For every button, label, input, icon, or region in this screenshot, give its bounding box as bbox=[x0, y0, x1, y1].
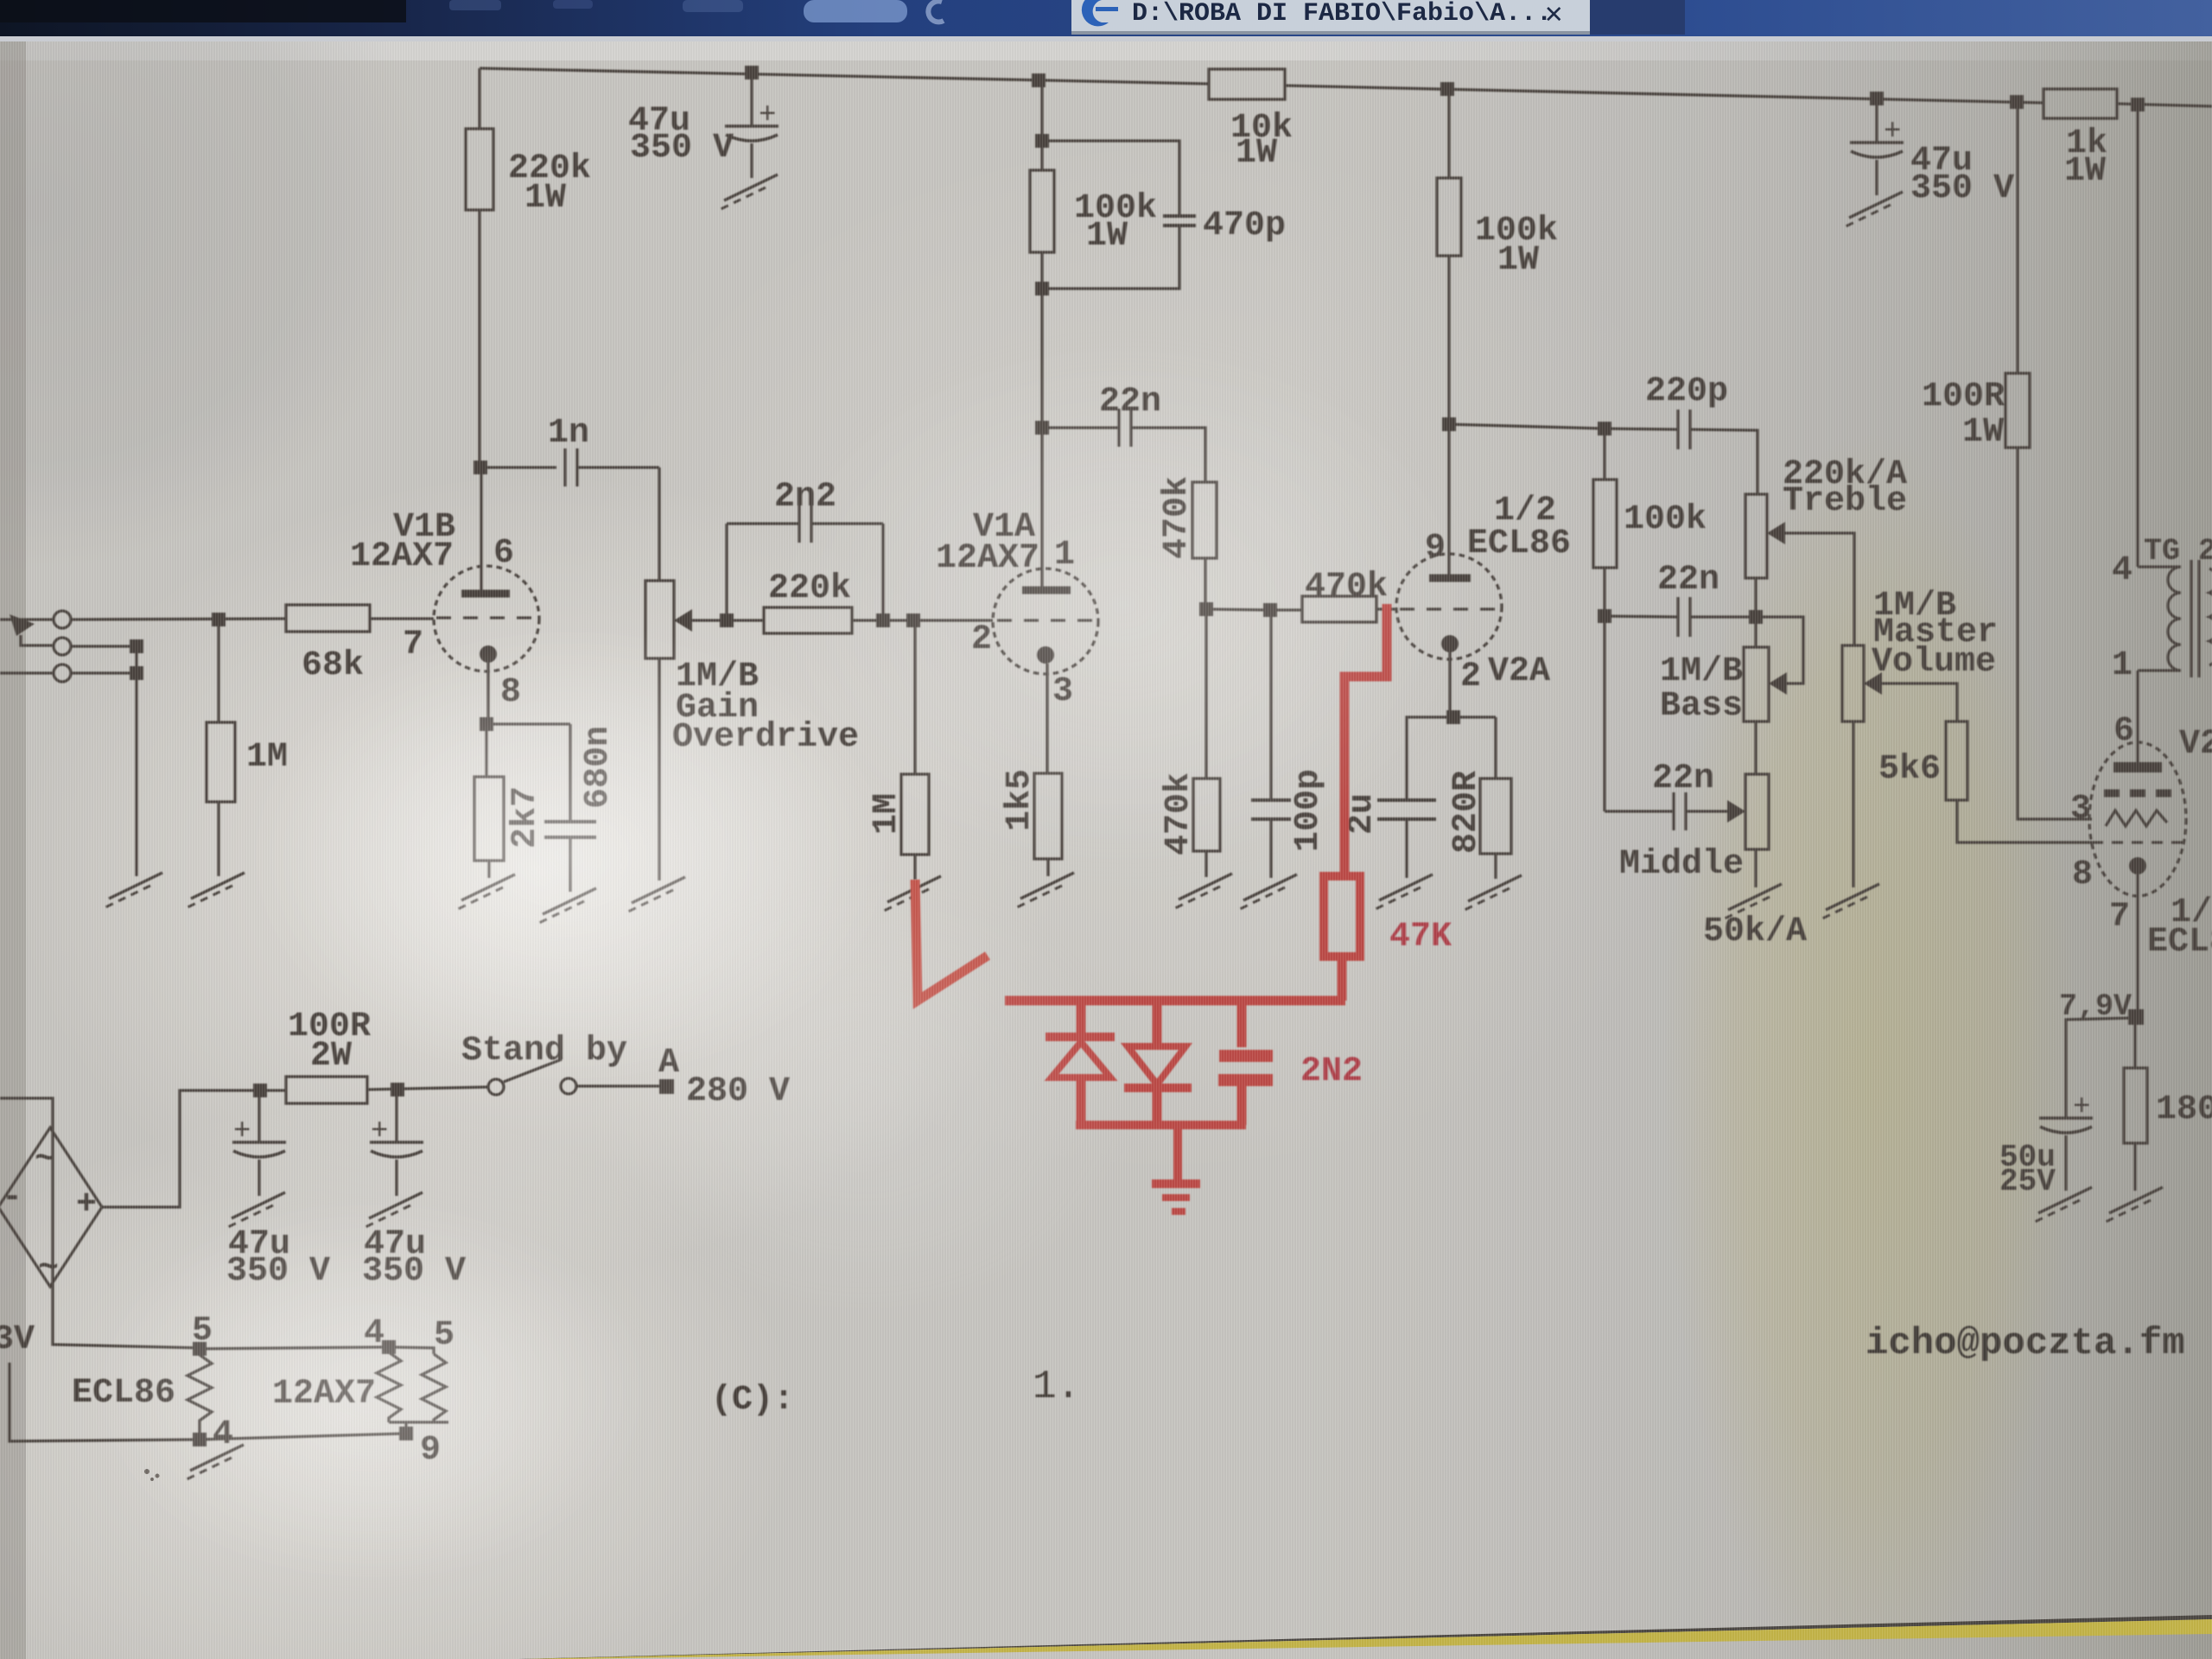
ground heater bbox=[185, 1445, 244, 1480]
ground 470k lower bbox=[1173, 874, 1232, 909]
svg-text:✕: ✕ bbox=[1545, 0, 1562, 32]
node junction tone stack top bbox=[1598, 422, 1611, 435]
node junction B+ at 47u bbox=[745, 66, 759, 79]
capacitor 50u 25V cathode bypass bbox=[2066, 1018, 2135, 1118]
node junction 1n bbox=[474, 461, 487, 474]
node junction heater return bbox=[399, 1427, 413, 1440]
node junction heater ECL86 pin5 bbox=[193, 1342, 207, 1356]
node junction gain wiper bbox=[720, 613, 734, 627]
node junction PSU cap1 bbox=[253, 1084, 267, 1097]
wire B+ top rail bbox=[480, 68, 1209, 84]
node junction 1M grid bbox=[906, 613, 920, 627]
wire red bus top bbox=[1005, 996, 1345, 1006]
wire input jack bottom bbox=[0, 671, 54, 674]
ground master pot bbox=[1821, 884, 1879, 919]
resistor 68k grid stopper bbox=[286, 605, 370, 632]
resistor 470k upper bbox=[1192, 482, 1217, 558]
potentiometer 1M/B Master Volume bbox=[1842, 645, 1864, 721]
triode V1A 12AX7 bbox=[993, 569, 1098, 674]
node junction V2A cathode bbox=[1446, 710, 1460, 724]
potentiometer 220k/A Treble bbox=[1745, 494, 1767, 578]
capacitor 220p treble bbox=[1605, 429, 1678, 429]
diode D1 up bbox=[1077, 1001, 1086, 1033]
node junction treble bottom bbox=[1749, 610, 1763, 624]
resistor 10k 1W on rail bbox=[1209, 69, 1285, 99]
node junction V2A grid left bbox=[1199, 602, 1213, 616]
wire heater return bbox=[10, 1363, 406, 1441]
heater supply wiring bbox=[0, 1098, 200, 1348]
ground 1M grid bbox=[882, 876, 941, 912]
heater element ECL86 bbox=[188, 1355, 212, 1433]
resistor 1k5 cathode V1A bbox=[1034, 773, 1062, 859]
node junction 22n tap bbox=[1035, 421, 1049, 435]
resistor 100k 1W plate load V2A bbox=[1447, 89, 1450, 178]
resistor 5k6 bbox=[1946, 721, 1967, 800]
glare wash bbox=[0, 0, 1, 1]
capacitor 47u 350V decoupling top-left bbox=[750, 73, 753, 126]
ground gain pot bbox=[626, 877, 685, 912]
node junction heater ECL86 pin4 bbox=[193, 1433, 207, 1446]
capacitor 470p anode bypass bbox=[1042, 141, 1179, 216]
specks bbox=[144, 1469, 149, 1474]
ground 2k7 bbox=[456, 874, 515, 910]
diode D2 down bbox=[1153, 1001, 1162, 1046]
node junction PSU cap2 bbox=[391, 1083, 404, 1096]
wire to bass wiper riser bbox=[1755, 617, 1803, 683]
resistor 220k series grid bbox=[764, 607, 852, 633]
node junction tone mid bbox=[1598, 609, 1611, 623]
resistor 470k lower to ground bbox=[1205, 609, 1207, 779]
ground jack bbox=[104, 873, 162, 908]
capacitor 47u 350V PSU first bbox=[257, 1090, 260, 1142]
resistor 220k 1W plate load V1B bbox=[478, 68, 480, 129]
capacitor 22n coupling to V2A bbox=[1042, 426, 1119, 429]
wire bridge output bbox=[102, 1090, 260, 1207]
red check mark bbox=[915, 880, 988, 1001]
node junction B+ at V1A branch bbox=[1032, 73, 1046, 87]
resistor 1k 1W on rail bbox=[2044, 89, 2117, 118]
svg-text:D:\ROBA DI FABIO\Fabio\A...: D:\ROBA DI FABIO\Fabio\A... bbox=[1132, 0, 1552, 29]
node junction 470p bottom bbox=[1035, 282, 1049, 296]
node junction heater 12AX7 pin4 bbox=[382, 1340, 396, 1354]
capacitor 2n2 bypass bbox=[725, 524, 728, 620]
node junction V2A anode bbox=[1442, 417, 1456, 431]
capacitor 2u cathode V2A bbox=[1407, 717, 1453, 800]
triode V1B 12AX7 bbox=[434, 566, 539, 671]
jack circle middle bbox=[54, 638, 71, 655]
capacitor 47u 350V right bbox=[1875, 99, 1878, 143]
capacitor 22n middle bbox=[1603, 616, 1605, 811]
wire anode to tone stack bbox=[1449, 424, 1605, 429]
resistor 2k7 cathode V1B bbox=[485, 724, 487, 777]
capacitor 22n bass bbox=[1605, 616, 1678, 617]
wire input jack top bbox=[0, 618, 54, 620]
node junction 2n2 right bbox=[876, 613, 890, 627]
capacitor 100p to ground bbox=[1269, 610, 1272, 800]
heater elements 12AX7 bbox=[377, 1352, 401, 1422]
resistor 470k series V2A grid bbox=[1302, 596, 1376, 622]
ground 100p bbox=[1238, 874, 1297, 910]
pentode V2B half ECL86 bbox=[2089, 742, 2186, 896]
ground 1M bbox=[186, 873, 245, 908]
resistor 100R 2W bbox=[286, 1077, 367, 1103]
capacitor 680n cathode bypass bbox=[486, 722, 570, 725]
resistor 180R cathode V2B bbox=[2133, 1016, 2136, 1068]
resistor 100k tone stack bbox=[1603, 429, 1605, 480]
node junction V2B cathode bbox=[2128, 1009, 2144, 1025]
resistor 1M grid leak V1A bbox=[913, 620, 916, 774]
node junction B+ at V2A branch bbox=[1440, 82, 1454, 96]
node junction B+ at 100R branch bbox=[2010, 95, 2024, 109]
input arrow marker bbox=[10, 614, 35, 636]
triode V2A half ECL86 bbox=[1396, 554, 1502, 659]
RED OVERLAY bbox=[915, 604, 1452, 1211]
potentiometer 1M/B Bass bbox=[1754, 617, 1757, 647]
node junction B+ at transformer branch bbox=[2131, 98, 2145, 111]
resistor 1M input load bbox=[217, 620, 219, 722]
ground 1k5 bbox=[1015, 873, 1074, 908]
ground 680n bbox=[537, 888, 596, 924]
ground red bbox=[1173, 1125, 1182, 1180]
resistor 47K red bbox=[1324, 876, 1360, 957]
node junction B+ at 47u right bbox=[1870, 92, 1884, 105]
IE logo bbox=[1082, 0, 1118, 26]
toolbar icon hints bbox=[449, 0, 501, 10]
wire red bus bottom bbox=[1076, 1121, 1246, 1129]
switch Stand by bbox=[488, 1079, 504, 1095]
resistor 100R 1W screen bbox=[2016, 102, 2018, 373]
node junction 100p bbox=[1263, 603, 1277, 617]
dark block right of tab bbox=[1590, 0, 1685, 35]
capacitor 1n coupling V1B anode bbox=[480, 466, 556, 468]
capacitor 47u 350V PSU second bbox=[395, 1090, 397, 1142]
node junction 470p top bbox=[1035, 134, 1049, 148]
resistor 820R cathode V2A bbox=[1453, 715, 1496, 718]
potentiometer 1M/B Gain bbox=[645, 581, 674, 658]
potentiometer 50k/A Middle bbox=[1745, 774, 1769, 849]
transformer TG2 bbox=[2136, 105, 2139, 567]
bridge rectifier bbox=[0, 1128, 102, 1287]
node input junction bbox=[212, 613, 226, 626]
ground 2u bbox=[1374, 874, 1433, 910]
ground 820R bbox=[1463, 875, 1522, 911]
wire red V2A grid to 47K bbox=[1344, 604, 1387, 876]
browser tab bbox=[1071, 0, 1590, 35]
node junction V1B cathode bbox=[480, 717, 493, 731]
resistor 100k 1W plate load V1A bbox=[1040, 80, 1043, 170]
capacitor 2N2 red bbox=[1237, 1001, 1247, 1047]
ground middle pot bbox=[1723, 884, 1782, 919]
